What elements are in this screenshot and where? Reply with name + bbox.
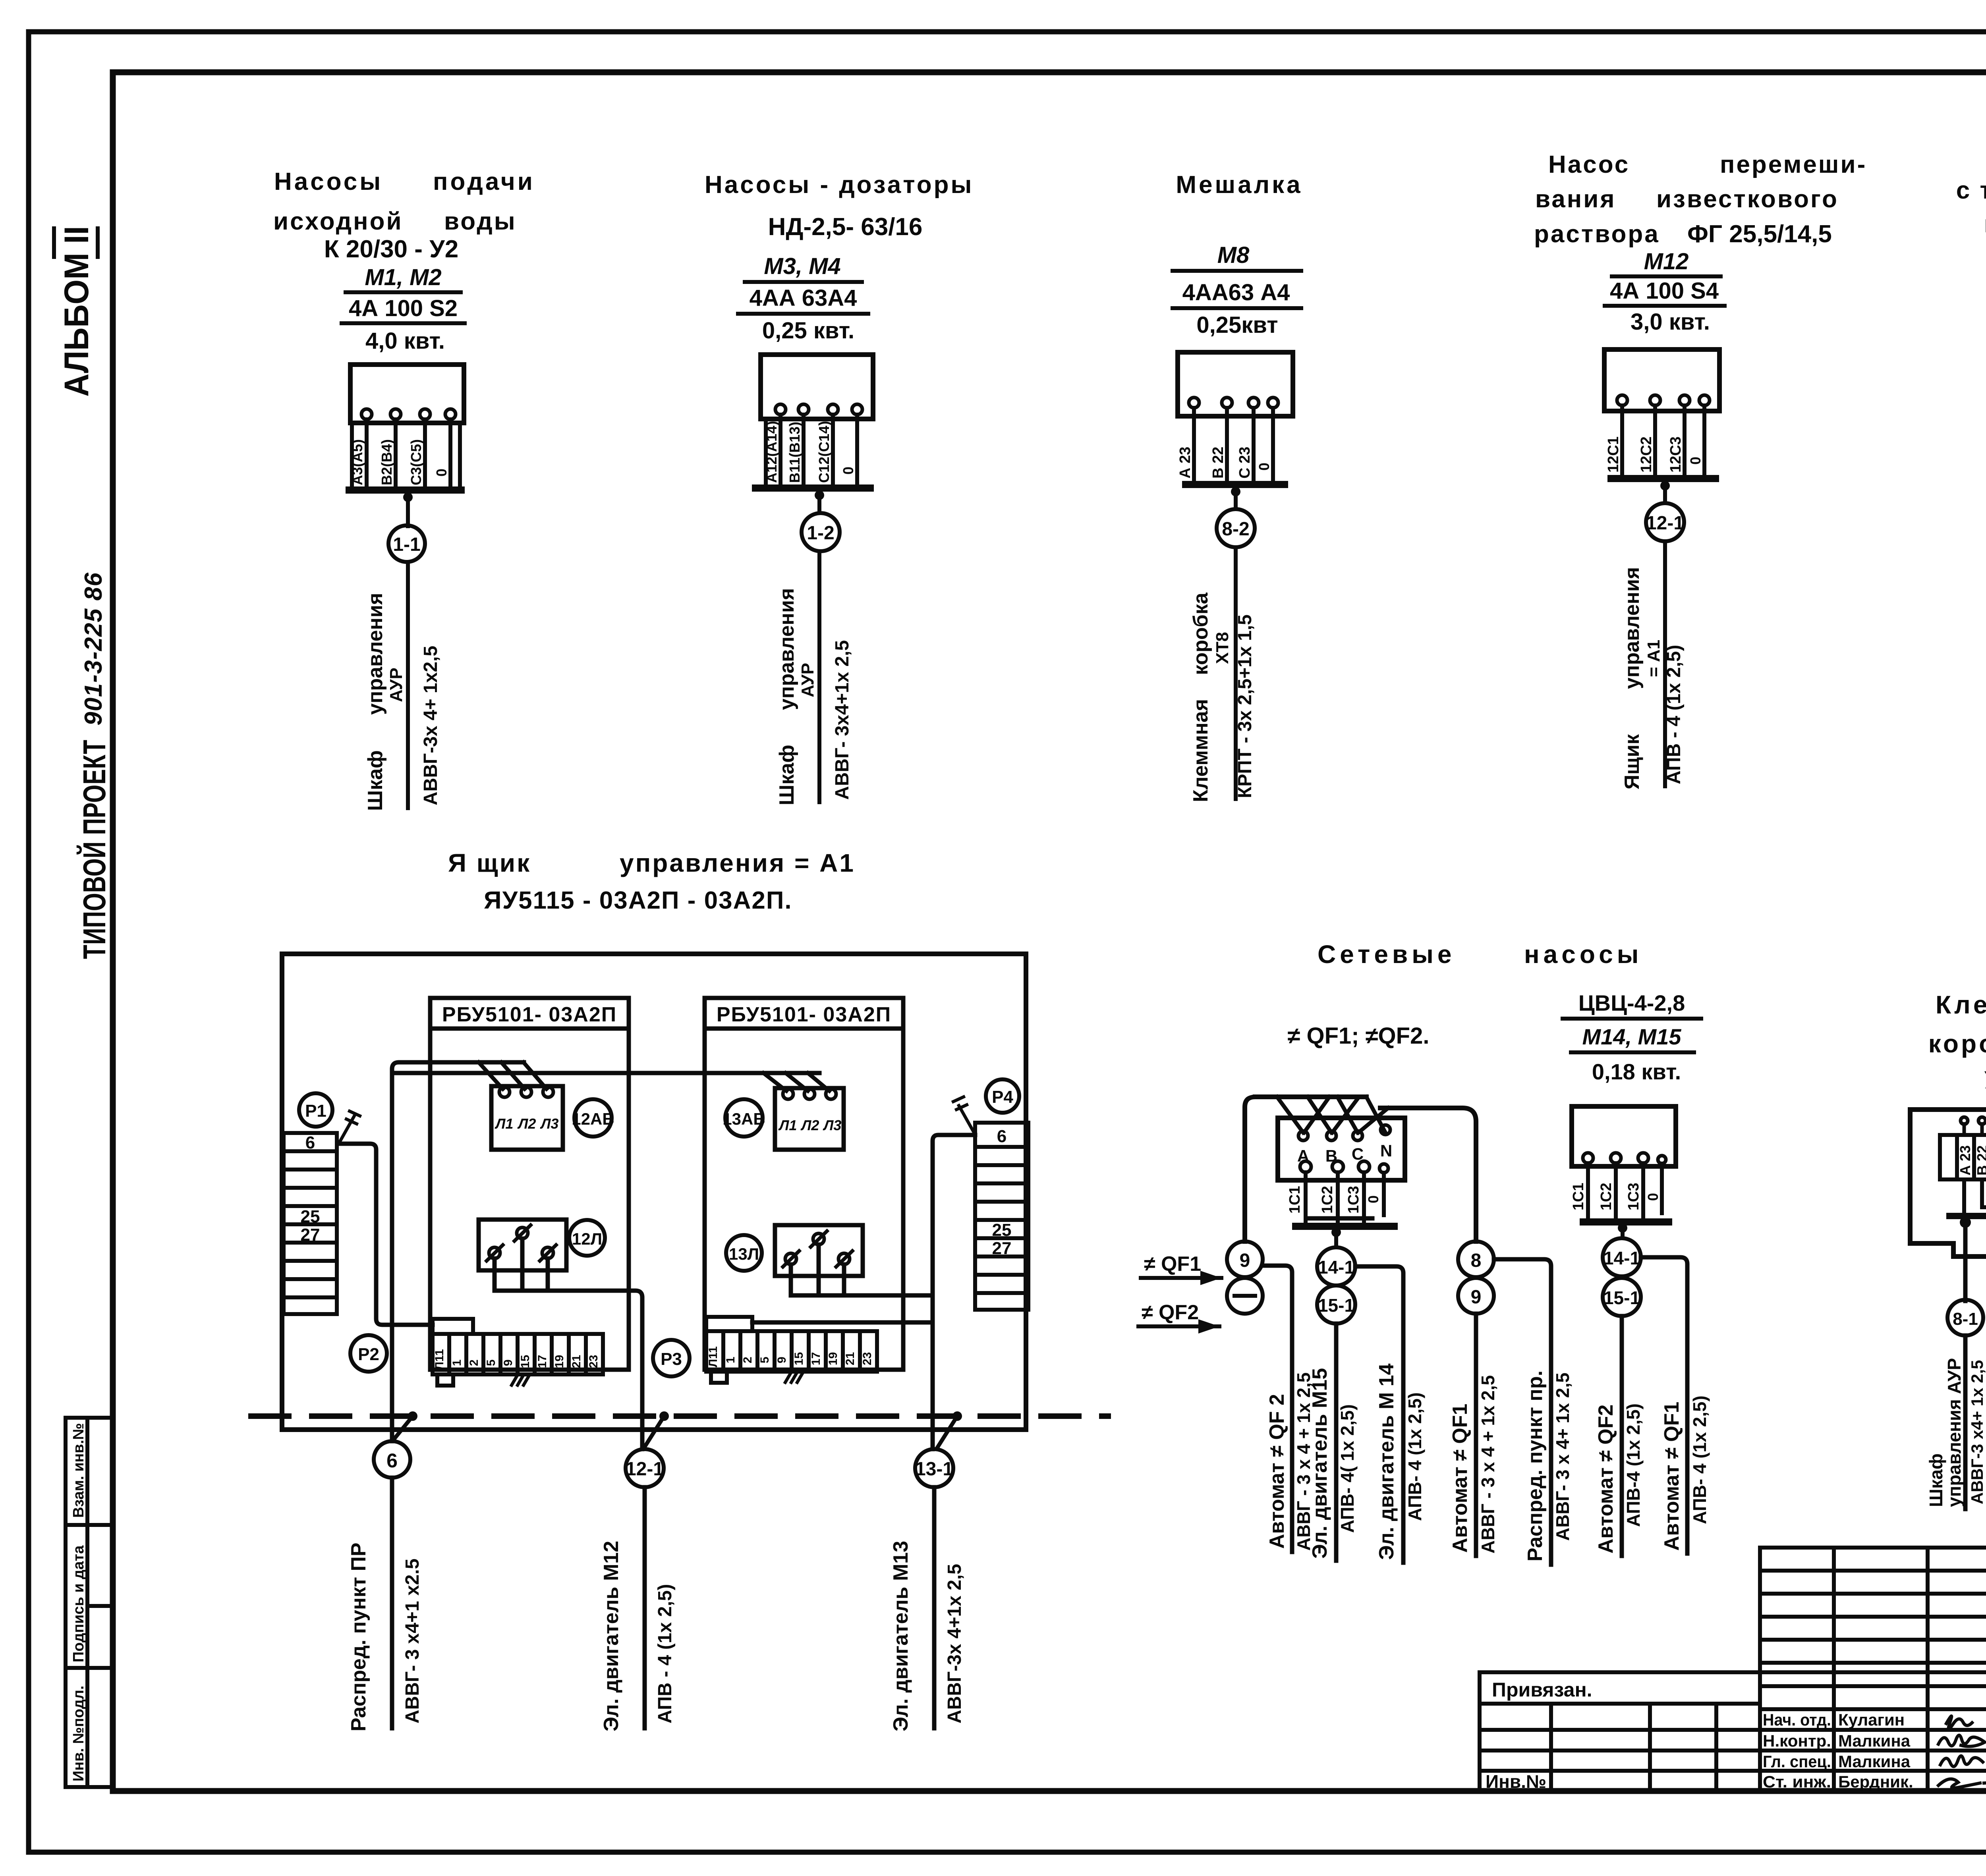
svg-text:известкового: известкового — [1656, 185, 1839, 213]
svg-text:М12: М12 — [1644, 249, 1689, 274]
label M8 — [1173, 242, 1301, 338]
sidebar stamp table — [66, 1418, 113, 1787]
control box A1 enclosure — [282, 954, 1026, 1430]
svg-text:12АВ: 12АВ — [572, 1110, 614, 1128]
svg-text:≠ QF1: ≠ QF1 — [1144, 1253, 1201, 1276]
svg-text:В 22: В 22 — [1974, 1145, 1986, 1175]
svg-text:0: 0 — [1645, 1193, 1661, 1201]
svg-text:Автомат ≠ QF2: Автомат ≠ QF2 — [1594, 1405, 1617, 1554]
svg-text:Л11: Л11 — [433, 1349, 446, 1370]
pump connection box — [1278, 1118, 1405, 1180]
signatures — [1938, 1716, 1986, 1788]
node — [403, 492, 413, 502]
motor M3,M4 terminal box — [761, 355, 873, 419]
svg-text:4,0 квт.: 4,0 квт. — [365, 328, 445, 354]
svg-text:≠ QF2: ≠ QF2 — [1142, 1301, 1199, 1324]
svg-text:1С3: 1С3 — [1625, 1183, 1642, 1210]
svg-text:Шкаф: Шкаф — [364, 750, 387, 811]
svg-text:Сетевые: Сетевые — [1318, 940, 1456, 969]
signature rows — [1763, 1710, 1913, 1791]
svg-text:13АВ: 13АВ — [723, 1110, 765, 1128]
svg-text:4АА 63А4: 4АА 63А4 — [750, 285, 857, 311]
cable automaton QF1 — [1641, 1257, 1687, 1554]
svg-text:РБУ5101- 03А2П: РБУ5101- 03А2П — [442, 1003, 617, 1026]
node — [1231, 487, 1240, 496]
lamp wires to cable 12-1 — [495, 1239, 642, 1449]
central grid — [1758, 1548, 1762, 1791]
svg-text:Ящик: Ящик — [1621, 734, 1644, 789]
svg-text:Л11: Л11 — [707, 1346, 720, 1367]
bus bar — [755, 484, 870, 492]
cable down — [817, 551, 821, 802]
cable link 14-1 — [1603, 1238, 1641, 1276]
svg-text:4А 100 S4: 4А 100 S4 — [1610, 278, 1719, 304]
wire — [1234, 488, 1238, 509]
svg-text:АЛЬБОМ II: АЛЬБОМ II — [58, 226, 96, 397]
svg-text:Эл. двигатель М12: Эл. двигатель М12 — [600, 1541, 623, 1731]
bus bar — [1949, 1213, 1986, 1219]
junction on dashed line — [659, 1411, 669, 1421]
svg-text:ФГ 25,5/14,5: ФГ 25,5/14,5 — [1687, 220, 1832, 248]
lamp — [487, 1225, 556, 1261]
svg-text:19: 19 — [827, 1352, 840, 1365]
cable link 14-1 — [1317, 1247, 1355, 1285]
svg-text:Инв. №подл.: Инв. №подл. — [70, 1685, 87, 1781]
svg-text:А3(А5): А3(А5) — [349, 439, 365, 485]
cable link 1-1 — [388, 525, 425, 562]
svg-text:19: 19 — [553, 1355, 566, 1368]
svg-text:воды: воды — [444, 208, 517, 235]
svg-text:Л1: Л1 — [495, 1116, 514, 1132]
svg-text:23: 23 — [587, 1355, 600, 1368]
svg-text:12С2: 12С2 — [1638, 436, 1655, 473]
tag 13L — [726, 1235, 762, 1271]
unit RBU5101 right — [705, 998, 903, 1370]
label M12 — [1605, 249, 1725, 335]
bus bar — [1583, 1218, 1669, 1226]
junction on dashed line — [952, 1411, 962, 1421]
lamp — [783, 1231, 852, 1267]
cable motor M15 — [1334, 1324, 1339, 1561]
strip ground — [510, 1374, 530, 1385]
svg-text:Малкина: Малкина — [1838, 1752, 1911, 1771]
svg-text:12С3: 12С3 — [1667, 436, 1684, 473]
svg-text:0,25 квт.: 0,25 квт. — [762, 318, 854, 344]
svg-text:М3, М4: М3, М4 — [764, 253, 840, 279]
svg-text:Нач. отд.: Нач. отд. — [1763, 1710, 1831, 1729]
svg-text:14-1: 14-1 — [1603, 1248, 1640, 1268]
cable link 8 — [1458, 1241, 1494, 1277]
svg-text:Л3: Л3 — [823, 1117, 842, 1133]
svg-text:Насосы - дозаторы: Насосы - дозаторы — [705, 171, 974, 199]
svg-text:В2(В4): В2(В4) — [379, 439, 395, 485]
terminal strip left — [433, 1319, 603, 1386]
wires to bus — [1588, 1163, 1662, 1219]
cable automaton QF2 — [1620, 1316, 1624, 1556]
cable link 15-1 — [1603, 1278, 1641, 1316]
cable link 8-2 — [1217, 509, 1255, 547]
phase change-over diagonals — [1277, 1097, 1388, 1133]
svg-text:Л3: Л3 — [540, 1116, 559, 1132]
svg-text:25: 25 — [301, 1207, 320, 1226]
bus bar — [1611, 475, 1716, 482]
svg-text:Л2: Л2 — [517, 1116, 536, 1132]
terminal strip right — [706, 1317, 877, 1383]
svg-text:2: 2 — [741, 1357, 754, 1363]
svg-text:9: 9 — [1471, 1287, 1482, 1308]
svg-text:АПВ-4 (1х 2,5): АПВ-4 (1х 2,5) — [1623, 1403, 1644, 1527]
svg-text:15-1: 15-1 — [1603, 1287, 1640, 1308]
svg-text:АВВГ-3х 4+ 1х2,5: АВВГ-3х 4+ 1х2,5 — [420, 646, 441, 805]
svg-text:≠ QF1; ≠QF2.: ≠ QF1; ≠QF2. — [1288, 1023, 1430, 1049]
phase wires to bus — [766, 415, 857, 486]
svg-text:901-3-225 86: 901-3-225 86 — [80, 572, 107, 726]
svg-text:Гл. спец.: Гл. спец. — [1763, 1752, 1831, 1771]
contactor block 13AB — [775, 1088, 844, 1150]
svg-text:АВВГ- 3 х 4+ 1х 2,5: АВВГ- 3 х 4+ 1х 2,5 — [1552, 1372, 1573, 1541]
wires to bus — [1306, 1172, 1384, 1224]
svg-text:ТИПОВОЙ ПРОЕКТ: ТИПОВОЙ ПРОЕКТ — [76, 740, 112, 959]
phase wires to bus — [1194, 408, 1273, 481]
svg-text:Автомат ≠ QF 2: Автомат ≠ QF 2 — [1265, 1394, 1289, 1549]
wire — [406, 493, 410, 526]
shield symbol P1 — [340, 1111, 360, 1141]
svg-text:вания: вания — [1535, 185, 1616, 213]
terminals — [1189, 398, 1278, 408]
cable down — [406, 562, 410, 808]
bus bar — [349, 486, 461, 494]
svg-text:РБУ5101- 03А2П: РБУ5101- 03А2П — [717, 1003, 891, 1026]
strip terminal numbers — [433, 1349, 600, 1370]
svg-text:0,25квт: 0,25квт — [1196, 312, 1278, 338]
svg-text:АПВ - 4 (1х 2,5): АПВ - 4 (1х 2,5) — [1663, 645, 1685, 784]
svg-text:Автомат ≠ QF1: Автомат ≠ QF1 — [1449, 1404, 1472, 1553]
terminals — [775, 404, 862, 415]
terminal box XT8 enclosure — [1910, 1098, 1986, 1256]
installation boundary dashed line — [251, 1413, 1108, 1419]
svg-text:управления: управления — [775, 588, 798, 710]
svg-text:мешалкой: мешалкой — [1984, 210, 1986, 238]
tag 12AB — [574, 1099, 612, 1137]
svg-text:6: 6 — [997, 1127, 1007, 1146]
unit RBU5101 left — [430, 998, 629, 1370]
svg-text:Малкина: Малкина — [1838, 1731, 1911, 1750]
svg-text:1С3: 1С3 — [1345, 1186, 1362, 1214]
svg-text:А 23: А 23 — [1177, 447, 1194, 479]
svg-text:управления АУР: управления АУР — [1944, 1358, 1965, 1507]
svg-text:Н.контр.: Н.контр. — [1763, 1731, 1831, 1750]
cable automaton QF1 — [1474, 1314, 1478, 1556]
svg-text:1С2: 1С2 — [1598, 1183, 1615, 1210]
lamp wires to cable 13-1 — [791, 1245, 933, 1295]
pump motor M14 M15 box — [1572, 1106, 1676, 1166]
svg-text:12Л: 12Л — [572, 1229, 602, 1248]
svg-text:4АА63 А4: 4АА63 А4 — [1182, 280, 1290, 305]
svg-text:В 22: В 22 — [1210, 447, 1227, 479]
cable down — [1663, 541, 1667, 786]
svg-text:АПВ- 4 (1х 2,5): АПВ- 4 (1х 2,5) — [1689, 1395, 1710, 1524]
terminals — [1583, 1153, 1666, 1164]
svg-text:9: 9 — [502, 1359, 515, 1366]
svg-text:подачи: подачи — [433, 168, 535, 195]
cable to motor M13 — [932, 1487, 937, 1728]
svg-text:АВВГ-3 х4+ 1х 2,5: АВВГ-3 х4+ 1х 2,5 — [1968, 1360, 1986, 1504]
node — [1331, 1228, 1341, 1237]
svg-text:5: 5 — [485, 1359, 498, 1366]
svg-text:коробка: коробка — [1189, 592, 1212, 675]
svg-text:АПВ- 4 (1х 2,5): АПВ- 4 (1х 2,5) — [1404, 1392, 1425, 1521]
svg-text:КРПТ - 3х 2,5+1х 1,5: КРПТ - 3х 2,5+1х 1,5 — [1234, 614, 1256, 798]
svg-text:8-1: 8-1 — [1953, 1309, 1978, 1329]
svg-text:23: 23 — [861, 1352, 874, 1365]
svg-text:0: 0 — [840, 467, 856, 475]
cable distribution — [1494, 1259, 1551, 1565]
title dosing pumps — [705, 171, 974, 241]
cable to motor M12 — [643, 1487, 647, 1728]
svg-text:12-1: 12-1 — [626, 1459, 664, 1480]
svg-text:Эл. двигатель М15: Эл. двигатель М15 — [1308, 1368, 1331, 1559]
terminal ladder P1 — [284, 1133, 337, 1314]
svg-text:9: 9 — [775, 1357, 788, 1363]
svg-text:Р3: Р3 — [661, 1349, 682, 1369]
svg-text:АПВ - 4 (1х 2,5): АПВ - 4 (1х 2,5) — [655, 1584, 676, 1724]
svg-text:АВВГ- 3х4+1х 2,5: АВВГ- 3х4+1х 2,5 — [832, 640, 853, 800]
svg-text:17: 17 — [809, 1352, 823, 1365]
wire P4 to cable 13-1 — [933, 1135, 975, 1449]
svg-text:исходной: исходной — [273, 208, 403, 235]
svg-text:Насос: Насос — [1548, 151, 1630, 178]
svg-text:Инв.№: Инв.№ — [1486, 1771, 1546, 1792]
svg-text:14-1: 14-1 — [1318, 1257, 1354, 1278]
svg-text:0: 0 — [1687, 457, 1704, 465]
terminals — [361, 409, 456, 419]
title lime mortar mixing pump — [1534, 151, 1867, 248]
wire phase bus to right unit — [392, 1071, 819, 1075]
svg-text:Клеммная: Клеммная — [1189, 699, 1212, 802]
svg-text:Ст. инж.: Ст. инж. — [1763, 1772, 1831, 1791]
svg-text:Клеммная: Клеммная — [1936, 990, 1986, 1019]
label CVC type — [1563, 990, 1701, 1084]
svg-text:0: 0 — [1365, 1195, 1381, 1203]
cable link 15-1 — [1317, 1285, 1355, 1324]
svg-text:Эл. двигатель М13: Эл. двигатель М13 — [889, 1541, 912, 1731]
svg-text:АВВГ-3х 4+1х 2,5: АВВГ-3х 4+1х 2,5 — [944, 1564, 965, 1724]
contactor block 12AB — [491, 1086, 563, 1150]
svg-text:2: 2 — [468, 1359, 481, 1366]
left extension — [1478, 1672, 1482, 1791]
tag 13AB — [725, 1099, 763, 1137]
wire supply to link 6 — [392, 1062, 524, 1441]
svg-text:6: 6 — [305, 1133, 315, 1152]
motor M12 terminal box — [1604, 349, 1719, 411]
svg-text:АУР: АУР — [386, 668, 406, 702]
feed wire left — [1255, 1094, 1366, 1099]
bus bar — [1296, 1223, 1394, 1230]
tag 12L — [569, 1220, 605, 1256]
svg-text:Распред. пункт ПР: Распред. пункт ПР — [347, 1542, 370, 1731]
node P2 — [350, 1335, 387, 1372]
strip ground — [784, 1372, 804, 1382]
terminals — [1617, 395, 1710, 405]
svg-text:М1, М2: М1, М2 — [365, 264, 441, 290]
svg-text:АПВ- 4( 1х 2,5): АПВ- 4( 1х 2,5) — [1337, 1404, 1358, 1533]
svg-text:НД-2,5- 63/16: НД-2,5- 63/16 — [768, 213, 923, 241]
motor M8 terminal box — [1178, 352, 1293, 416]
cable link dash — [1227, 1278, 1263, 1314]
svg-text:Л2: Л2 — [800, 1117, 819, 1133]
node P4 — [986, 1079, 1019, 1113]
svg-text:1: 1 — [450, 1359, 464, 1366]
title pumps feed water — [273, 168, 535, 263]
svg-text:1С1: 1С1 — [1287, 1186, 1303, 1214]
wire — [1663, 482, 1667, 503]
svg-text:27: 27 — [992, 1239, 1012, 1258]
collector wires in box — [1964, 1179, 1986, 1216]
feed diagonals left — [479, 1062, 547, 1089]
svg-text:17: 17 — [536, 1355, 549, 1368]
phase wires to bus — [352, 419, 460, 488]
svg-text:15: 15 — [792, 1352, 806, 1365]
svg-text:25: 25 — [992, 1220, 1012, 1240]
svg-text:15: 15 — [519, 1355, 532, 1368]
terminal strip XT8 — [1940, 1135, 1986, 1179]
node — [1618, 1223, 1627, 1233]
cable automaton QF2 — [1263, 1266, 1292, 1552]
svg-text:А 23: А 23 — [1957, 1145, 1973, 1175]
terminal ladder P4 — [975, 1123, 1028, 1310]
svg-text:0,18 квт.: 0,18 квт. — [1592, 1059, 1681, 1084]
svg-text:перемеши-: перемеши- — [1720, 151, 1867, 178]
svg-text:12С1: 12С1 — [1605, 436, 1622, 473]
node — [1660, 481, 1670, 490]
svg-text:управления: управления — [1621, 567, 1644, 689]
cable down — [1234, 547, 1238, 799]
svg-text:13Л: 13Л — [729, 1245, 759, 1263]
label M1 M2 — [342, 264, 465, 354]
svg-text:0: 0 — [433, 469, 450, 477]
strip terminal numbers — [707, 1346, 874, 1367]
svg-text:15-1: 15-1 — [1318, 1295, 1354, 1316]
svg-text:21: 21 — [844, 1352, 857, 1365]
lamp block 12L — [479, 1220, 566, 1270]
node — [1960, 1217, 1971, 1228]
wire strip to cable 13-1 — [752, 1320, 933, 1325]
svg-text:Насосы: Насосы — [274, 168, 383, 195]
svg-text:13-1: 13-1 — [915, 1459, 953, 1480]
cable link 1-2 — [802, 513, 840, 551]
svg-text:с турбинной: с турбинной — [1956, 177, 1986, 204]
wire P1 to terminal strip — [338, 1144, 433, 1325]
svg-text:Взам. инв.№: Взам. инв.№ — [70, 1423, 87, 1518]
svg-text:1-1: 1-1 — [393, 534, 420, 555]
svg-text:М14, М15: М14, М15 — [1582, 1024, 1682, 1049]
junction on dashed line — [408, 1411, 417, 1421]
svg-text:А12(А14): А12(А14) — [763, 421, 780, 483]
svg-text:коробка ХТ8.: коробка ХТ8. — [1928, 1029, 1986, 1058]
svg-text:управления: управления — [364, 593, 387, 715]
svg-text:Бердник.: Бердник. — [1838, 1772, 1913, 1791]
lamp block 13L — [775, 1225, 863, 1276]
svg-text:Р2: Р2 — [358, 1345, 379, 1364]
svg-text:АВВГ- 3 х4+1 х2.5: АВВГ- 3 х4+1 х2.5 — [402, 1559, 423, 1724]
svg-text:Р1: Р1 — [305, 1101, 326, 1121]
svg-text:Привязан.: Привязан. — [1492, 1679, 1592, 1701]
svg-text:9: 9 — [1240, 1250, 1250, 1271]
motor M1,M2 terminal box — [350, 365, 464, 423]
svg-text:21: 21 — [570, 1355, 583, 1368]
svg-text:8-2: 8-2 — [1222, 519, 1249, 540]
title turbine mixer apparatus — [1956, 142, 1986, 238]
cable link 13-1 — [915, 1449, 953, 1487]
cable link 8-1 — [1947, 1300, 1983, 1336]
svg-text:Шкаф: Шкаф — [775, 745, 798, 805]
svg-text:Л1: Л1 — [778, 1117, 797, 1133]
svg-text:Автомат ≠ QF1: Автомат ≠ QF1 — [1660, 1402, 1683, 1551]
svg-text:ЦВЦ-4-2,8: ЦВЦ-4-2,8 — [1578, 990, 1685, 1015]
svg-text:1: 1 — [724, 1357, 737, 1363]
cable link 9 — [1227, 1241, 1263, 1277]
svg-text:Я щик: Я щик — [448, 849, 531, 877]
cable link 12-1 — [1646, 503, 1684, 541]
svg-text:Р4: Р4 — [992, 1087, 1013, 1107]
svg-text:К 20/30 - У2: К 20/30 - У2 — [324, 235, 458, 263]
svg-text:С12(С14): С12(С14) — [816, 421, 832, 483]
svg-text:27: 27 — [301, 1225, 320, 1245]
svg-text:насосы: насосы — [1524, 940, 1642, 969]
svg-text:1С1: 1С1 — [1570, 1183, 1587, 1210]
bus bar — [1186, 481, 1285, 488]
svg-text:управления = А1: управления = А1 — [620, 849, 855, 877]
svg-text:АВВГ - 3 х 4 + 1х 2,5: АВВГ - 3 х 4 + 1х 2,5 — [1478, 1375, 1498, 1554]
node — [815, 490, 824, 500]
cable link 12-1 — [626, 1449, 664, 1487]
cable motor M14 — [1355, 1266, 1403, 1563]
svg-text:3,0 квт.: 3,0 квт. — [1631, 309, 1710, 335]
svg-text:АУР: АУР — [798, 663, 817, 697]
svg-text:1С2: 1С2 — [1319, 1186, 1336, 1214]
svg-text:ЯУ5115 - 03А2П - 03А2П.: ЯУ5115 - 03А2П - 03А2П. — [484, 887, 792, 914]
svg-text:ХТ8: ХТ8 — [1213, 632, 1232, 664]
svg-text:Мешалка: Мешалка — [1176, 171, 1302, 199]
node P1 — [299, 1093, 332, 1127]
wire — [817, 491, 821, 513]
cable to control cabinet — [1963, 1336, 1968, 1509]
svg-text:Кулагин: Кулагин — [1838, 1710, 1905, 1729]
svg-text:= А1: = А1 — [1644, 640, 1663, 677]
svg-text:5: 5 — [758, 1357, 771, 1363]
lower terminals — [1300, 1161, 1388, 1173]
svg-text:Шкаф: Шкаф — [1926, 1453, 1946, 1507]
cable link 9b — [1458, 1278, 1494, 1314]
svg-text:С3(С5): С3(С5) — [408, 439, 424, 485]
svg-text:М8: М8 — [1217, 242, 1250, 268]
svg-text:С 23: С 23 — [1236, 447, 1253, 479]
svg-text:4А 100 S2: 4А 100 S2 — [349, 295, 458, 321]
svg-text:6: 6 — [386, 1449, 398, 1472]
shield symbol P4 — [953, 1097, 973, 1131]
cable to distribution point — [390, 1478, 394, 1728]
svg-text:8: 8 — [1471, 1250, 1482, 1271]
cable link 6 — [374, 1441, 410, 1478]
svg-text:Подпись и дата: Подпись и дата — [70, 1545, 87, 1662]
feed diagonals right — [763, 1073, 829, 1091]
svg-text:раствора: раствора — [1534, 220, 1660, 248]
svg-text:12-1: 12-1 — [1646, 513, 1684, 534]
phase wires to bus — [1622, 405, 1704, 475]
svg-text:1-2: 1-2 — [807, 523, 834, 544]
svg-text:Распред. пункт пр.: Распред. пункт пр. — [1524, 1370, 1547, 1561]
svg-text:У614.: У614. — [1984, 1066, 1986, 1094]
